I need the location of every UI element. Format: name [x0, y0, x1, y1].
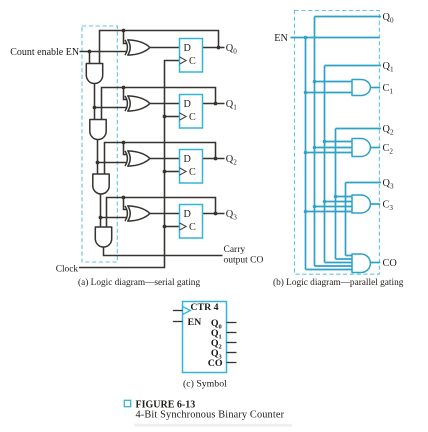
wire Q0 to CO [315, 265, 354, 267]
figure marker square [124, 400, 130, 406]
AND gate C2 [352, 139, 370, 157]
wire Q0 vertical (b) [314, 17, 316, 267]
AND gate G3 (serial chain) [93, 174, 109, 194]
node Q1 junction at C3 [323, 200, 327, 204]
wire feedback to XOR3 top input [124, 198, 128, 210]
AND gate C3 [352, 195, 370, 213]
node feedback branch 2 [122, 141, 126, 145]
wire Q0 (b) [315, 16, 382, 18]
wire Q1 vertical (b) [324, 66, 326, 263]
node feedback branch 0 [122, 29, 126, 33]
wire Q2 to CO [336, 258, 354, 260]
wire Q1 feedback [102, 88, 216, 121]
node EN junction at C3 [304, 210, 308, 214]
svg-text:1: 1 [219, 333, 222, 340]
wire Q3 output [203, 213, 225, 215]
node E3 junction [99, 216, 103, 220]
wire symbol EN stub [173, 321, 183, 323]
D flip-flop FF3 [180, 205, 203, 239]
node EN junction at C1 [304, 91, 308, 95]
wire Q3 vertical (b) [345, 183, 347, 256]
wire symbol Q3 stub [227, 352, 237, 354]
node clock junction 2 [163, 170, 167, 174]
wire EN to C2 [306, 152, 354, 154]
wire E3 to XOR3 input [101, 217, 128, 219]
AND gate CO [352, 254, 370, 273]
svg-text:EN: EN [274, 33, 288, 44]
node Q2 junction at C3 [334, 195, 338, 199]
wire Q2 feedback [105, 143, 216, 175]
svg-text:C: C [189, 56, 196, 67]
svg-text:D: D [184, 99, 191, 110]
XOR gate stage 1 [128, 96, 150, 111]
wire Q2 output [203, 158, 225, 160]
D flip-flop FF0 [180, 39, 203, 73]
node Q0 junction at C2 [313, 146, 317, 150]
svg-text:CTR 4: CTR 4 [190, 302, 218, 313]
svg-text:4-Bit Synchronous Binary Count: 4-Bit Synchronous Binary Counter [136, 409, 285, 420]
wire Q0 to C3 [315, 206, 354, 208]
node EN junction [88, 50, 92, 54]
svg-text:C: C [189, 112, 196, 123]
node Q0 junction at C1 [313, 80, 317, 84]
wire E1 to XOR1 input [95, 107, 128, 109]
wire Q1 output [203, 103, 225, 105]
AND gate G2 (serial chain) [90, 120, 106, 140]
symbol clock dynamic indicator [183, 307, 191, 315]
wire C2 output [370, 147, 380, 149]
AND gate G1 (serial chain) [86, 64, 102, 84]
wire E2 to XOR2 input [98, 162, 128, 164]
wire Q2 (b) [336, 128, 382, 130]
node feedback branch 1 [122, 86, 126, 90]
wire E1 chain [94, 83, 96, 120]
svg-text:Count enable EN: Count enable EN [10, 47, 79, 58]
node EN branch (b) [304, 36, 308, 40]
svg-text:CO: CO [208, 358, 223, 369]
svg-text:2: 2 [219, 343, 222, 350]
XOR gate stage 0 [128, 40, 150, 55]
wire symbol clock stub [173, 310, 183, 312]
svg-text:Clock: Clock [56, 264, 79, 274]
node clock junction 1 [163, 115, 167, 119]
wire symbol Q1 stub [227, 332, 237, 334]
D flip-flop FF1 [180, 95, 203, 129]
wire symbol CO stub [227, 362, 237, 364]
node Q1 output junction [214, 102, 218, 106]
node E2 junction [96, 161, 100, 165]
svg-text:D: D [184, 43, 191, 54]
wire feedback to XOR0 top input [124, 31, 128, 44]
svg-text:(c) Symbol: (c) Symbol [183, 378, 227, 389]
wire Q1 to C3 [325, 201, 354, 203]
svg-text:(b) Logic diagram—parallel gat: (b) Logic diagram—parallel gating [273, 277, 404, 288]
wire Q2 vertical (b) [335, 129, 337, 260]
wire Q0 output [203, 47, 225, 49]
wire Q1 to CO [325, 262, 354, 264]
node E1 junction [93, 106, 97, 110]
faint cropped line [134, 424, 292, 427]
wire XOR1 output to D [150, 103, 180, 105]
wire feedback to XOR1 top input [124, 88, 128, 100]
node Q2 output junction [214, 157, 218, 161]
D flip-flop FF2 [180, 150, 203, 184]
wire EN to C3 [306, 211, 354, 213]
XOR gate stage 3 [128, 206, 150, 221]
wire C3 output [370, 203, 380, 205]
symbol box CTR4 [183, 302, 227, 373]
wire carry output CO [104, 247, 223, 256]
wire E2 chain [97, 139, 99, 175]
svg-text:(a) Logic diagram—serial gatin: (a) Logic diagram—serial gating [78, 277, 200, 288]
node Q0 output junction [217, 46, 221, 50]
node feedback branch 3 [122, 196, 126, 200]
AND gate C1 [352, 80, 370, 96]
wire EN input [80, 51, 128, 53]
wire Q0 to C1 [315, 81, 354, 83]
wire EN (b) [291, 37, 380, 39]
svg-text:C: C [189, 222, 196, 233]
wire XOR0 output to D [150, 47, 180, 49]
svg-text:CO: CO [383, 258, 398, 269]
svg-text:C: C [189, 167, 196, 178]
wire Q2 to C3 [336, 196, 354, 198]
wire EN to CO [306, 269, 354, 271]
wire E3 chain [100, 194, 102, 228]
node EN junction at C2 [304, 151, 308, 155]
node Q1 junction at C2 [323, 140, 327, 144]
wire Q1 (b) [325, 65, 382, 67]
node Q3 output junction [214, 212, 218, 216]
wire clock to FF3 C [165, 226, 180, 228]
svg-text:0: 0 [219, 323, 222, 330]
wire clock to FF2 C [165, 171, 180, 173]
node clock junction 3 [163, 225, 167, 229]
wire CO output [370, 262, 380, 264]
svg-text:D: D [184, 154, 191, 165]
svg-text:Carry: Carry [224, 245, 246, 255]
svg-text:output CO: output CO [224, 256, 264, 266]
wire EN to C1 [306, 92, 354, 94]
wire Q0 to C2 [315, 147, 354, 149]
dashed box serial gating [82, 26, 117, 262]
svg-text:EN: EN [188, 317, 202, 328]
wire EN vertical (b) [305, 38, 307, 270]
node Q0 junction at C3 [313, 205, 317, 209]
wire feedback to XOR2 top input [124, 143, 128, 155]
dashed box parallel gating [295, 11, 380, 275]
wire Q3 (b) [346, 182, 382, 184]
wire Q0 feedback [100, 31, 219, 65]
wire clock to FF1 C [165, 116, 180, 118]
wire Q3 to CO [346, 255, 354, 257]
wire clock trunk [79, 61, 180, 268]
wire Q1 to C2 [325, 141, 354, 143]
AND gate G4 (serial chain) [95, 227, 111, 247]
wire XOR3 output to D [150, 213, 180, 215]
wire XOR2 output to D [150, 158, 180, 160]
wire Q3 feedback [107, 198, 216, 228]
wire symbol Q2 stub [227, 342, 237, 344]
wire C1 output [370, 87, 380, 89]
wire symbol Q0 stub [227, 322, 237, 324]
wire EN to AND1 [89, 52, 91, 65]
XOR gate stage 2 [128, 151, 150, 166]
svg-text:D: D [184, 209, 191, 220]
